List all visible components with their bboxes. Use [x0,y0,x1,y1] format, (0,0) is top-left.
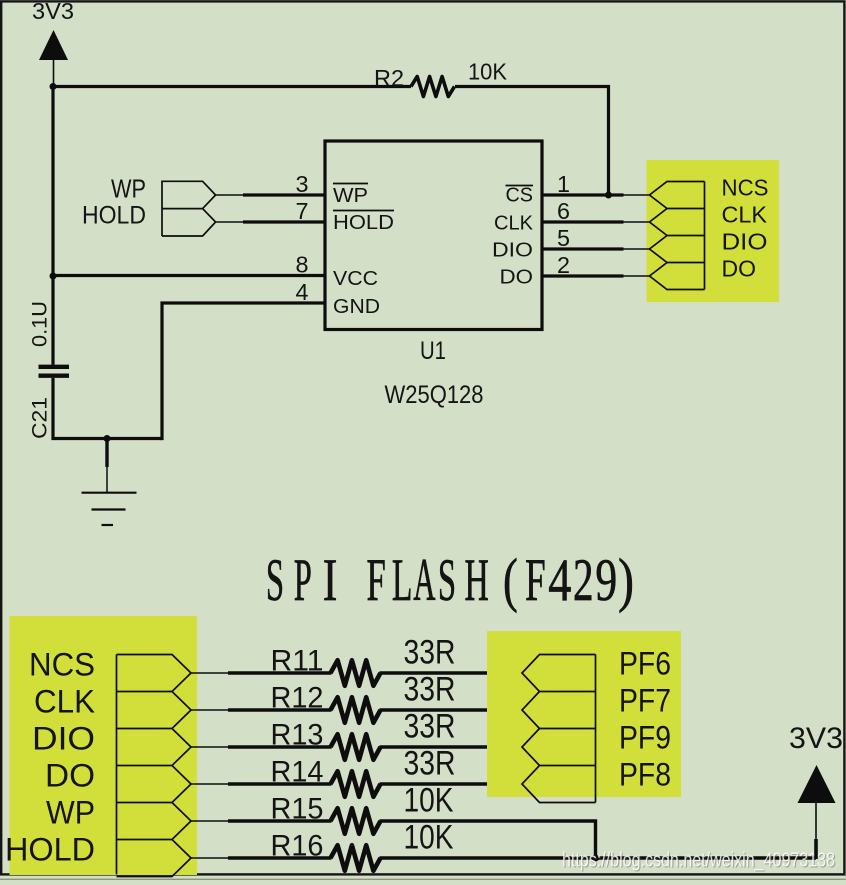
svg-text:R13: R13 [271,719,324,752]
svg-text:I: I [323,547,338,613]
svg-text:F: F [367,547,386,613]
svg-text:GND: GND [333,296,380,318]
svg-text:CS: CS [506,185,534,207]
resistor R14 [331,771,381,797]
lead pin to CLK [623,221,650,223]
svg-text:S: S [266,547,284,613]
wire R14 to PF pin [380,782,489,785]
lead to PF pentagon [488,709,523,711]
svg-text:NCS: NCS [722,175,769,201]
lead pin to DO [623,275,650,277]
wire R16 to 3V3 (bottom) [380,856,817,859]
svg-text:C21: C21 [29,397,52,439]
svg-text:U1: U1 [420,337,446,365]
svg-text:F: F [525,547,546,613]
svg-text:https://blog.csdn.net/weixin_4: https://blog.csdn.net/weixin_40973138 [562,850,835,872]
lead DO to R14 [191,783,229,785]
lead HOLD to pin 7 [216,221,244,223]
svg-text:10K: 10K [468,59,508,85]
pin 6 wire (CLK) [541,220,624,223]
resistor R11 [331,660,381,686]
pin 3 wire (WP) [243,193,326,196]
svg-text:R14: R14 [271,756,324,789]
wire VCC node to pin 8 [53,274,326,277]
svg-text:DO: DO [500,267,534,289]
svg-text:33R: 33R [404,671,456,709]
junction at pin 1 net [605,192,612,199]
wire R2 to pin 1 (CS) [455,87,609,196]
lead DIO to R13 [191,746,229,748]
svg-text:HOLD: HOLD [82,202,146,230]
pin 7 wire (HOLD) [243,220,326,223]
svg-text:HOLD: HOLD [5,832,95,868]
power symbol 3V3 (bottom arrow) [798,765,836,859]
wire capacitor to ground rail [51,378,54,439]
lead HOLD to R16 [191,857,229,859]
svg-text:): ) [618,547,634,613]
resistor R12 [331,697,381,723]
svg-text:DO: DO [722,256,757,282]
lead CLK to R12 [191,709,229,711]
wire R15 to 3V3 rail (down at x=595) [380,821,596,858]
svg-text:WP: WP [46,795,95,831]
svg-text:PF7: PF7 [619,683,671,719]
wire R13 to PF pin [380,745,489,748]
svg-text:1: 1 [557,171,570,197]
pin name WP (with overline) [333,184,368,208]
lead to PF pentagon [488,783,523,785]
wire ground rail to pin 4 (GND) [162,303,326,440]
watermark [562,850,836,873]
pin name HOLD (with overline) [333,211,394,235]
highlight box (bottom-left nets) [10,616,198,875]
svg-text:CLK: CLK [722,202,768,228]
connector NCS/CLK/DIO/DO (4-pin header shape) [650,182,705,290]
lead pin to NCS [623,194,650,196]
svg-text:S: S [438,547,456,613]
svg-text:DIO: DIO [722,229,768,255]
svg-text:3: 3 [296,171,309,197]
svg-text:5: 5 [557,225,570,251]
svg-text:7: 7 [296,198,309,224]
lead WP to R15 [191,820,229,822]
connector WP/HOLD (2-pin header shape) [162,181,216,236]
pin name CS (with overline) [506,185,534,207]
svg-text:DIO: DIO [492,240,533,262]
svg-text:WP: WP [111,174,146,204]
svg-text:33R: 33R [404,634,456,672]
svg-text:4: 4 [296,279,309,305]
svg-text:PF8: PF8 [619,757,671,793]
wire VCC node down to capacitor C21 [51,276,54,365]
highlight box (NCS/CLK/DIO/DO) [647,160,780,302]
wire ground rail horizontal [51,437,162,440]
pin 1 wire (CS) [541,193,624,196]
svg-text:HOLD: HOLD [333,212,394,234]
IC U1 body (W25Q128) [325,141,542,330]
svg-text:2: 2 [557,252,570,278]
title SPI FLASH(F429) [266,547,634,613]
svg-text:W25Q128: W25Q128 [385,381,484,409]
svg-text:H: H [465,547,489,613]
junction at 3V3 rail / R2 [50,83,57,90]
svg-text:DIO: DIO [32,721,95,757]
lead to PF pentagon [488,746,523,748]
svg-text:9: 9 [595,547,617,613]
svg-text:PF6: PF6 [619,646,671,682]
svg-text:10K: 10K [404,819,454,857]
svg-text:R16: R16 [271,830,324,863]
svg-text:PF9: PF9 [619,720,671,756]
svg-text:L: L [392,547,413,613]
wire WP row [228,819,332,822]
svg-text:(: ( [503,547,518,613]
svg-text:CLK: CLK [494,213,534,235]
resistor R2 [411,77,455,97]
wire 3V3 rail down to VCC node [51,87,54,277]
junction at ground rail [104,435,111,442]
wire NCS row [228,671,332,674]
svg-text:33R: 33R [404,708,456,746]
junction R15/R16 net [592,855,599,862]
wire DO row [228,782,332,785]
svg-text:DO: DO [45,758,95,794]
svg-text:33R: 33R [404,745,456,783]
svg-text:10K: 10K [404,782,454,820]
wire 3V3 rail to R2 [53,85,411,88]
lead WP to pin 3 [216,194,244,196]
lead pin to DIO [623,248,650,250]
svg-text:WP: WP [333,185,368,207]
highlight box (PF6/PF7/PF9/PF8) [487,631,681,797]
capacitor C21 plates [39,367,70,376]
wire DIO row [228,745,332,748]
svg-text:R11: R11 [271,645,324,678]
svg-text:0.1U: 0.1U [29,301,52,347]
svg-text:A: A [413,547,435,613]
resistor R16 [331,845,381,871]
svg-text:8: 8 [296,252,309,278]
svg-text:R12: R12 [271,682,324,715]
svg-text:CLK: CLK [34,684,95,720]
resistor R15 [331,808,381,834]
pin 5 wire (DIO) [541,247,624,250]
wire CLK row [228,708,332,711]
wire R11 to PF pin [380,671,489,674]
connector PF6/PF7/PF9/PF8 (4-pin header shape) [522,655,596,803]
connector bottom-left (6-pin header shape) [117,655,192,877]
svg-text:2: 2 [573,547,594,613]
svg-text:R2: R2 [374,65,404,91]
pin 2 wire (DO) [541,274,624,277]
lead to PF pentagon [488,672,523,674]
svg-text:3V3: 3V3 [32,0,74,24]
wire R12 to PF pin [380,708,489,711]
svg-text:6: 6 [557,198,570,224]
svg-text:R15: R15 [271,793,324,826]
resistor R13 [331,734,381,760]
svg-text:VCC: VCC [333,268,378,290]
svg-text:NCS: NCS [29,647,95,683]
junction at VCC node [50,273,57,280]
wire HOLD row [228,856,332,859]
svg-text:P: P [294,547,312,613]
lead NCS to R11 [191,672,229,674]
svg-text:3V3: 3V3 [789,722,843,755]
svg-text:4: 4 [548,547,571,613]
power symbol 3V3 (top arrow) [39,30,68,87]
ground symbol [82,439,137,526]
